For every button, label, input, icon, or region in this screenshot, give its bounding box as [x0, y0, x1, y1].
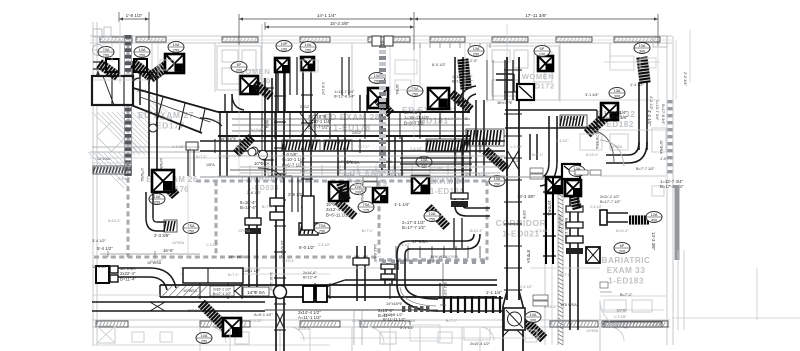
svg-text:1′-3 1/8″: 1′-3 1/8″	[320, 124, 333, 128]
riser x395	[394, 137, 396, 176]
svg-text:18″ΦSA: 18″ΦSA	[92, 265, 106, 269]
svg-text:B=7′-1″: B=7′-1″	[362, 229, 374, 233]
svg-text:WOMEN: WOMEN	[522, 72, 554, 81]
svg-text:8=10′-4″: 8=10′-4″	[250, 128, 263, 132]
riser x303	[302, 57, 304, 223]
margin line right	[756, 268, 758, 320]
ticked duct	[438, 297, 503, 299]
svg-text:14″ΦSA: 14″ΦSA	[352, 319, 365, 323]
svg-text:A=9′-1 1/2″: A=9′-1 1/2″	[254, 313, 273, 317]
band1 joints	[249, 111, 251, 139]
svg-text:12A: 12A	[651, 213, 658, 217]
svg-text:10A: 10A	[473, 47, 480, 51]
svg-text:B=7′-1″: B=7′-1″	[620, 293, 633, 297]
svg-text:B=17′-1 1/2″: B=17′-1 1/2″	[213, 292, 232, 296]
svg-text:14″ΦSA: 14″ΦSA	[235, 145, 248, 149]
tag 11	[149, 194, 165, 205]
trunk X brace	[507, 150, 519, 170]
wall top inner	[90, 42, 672, 44]
diffuser D9	[412, 176, 429, 193]
svg-text:2′-6 1/2″: 2′-6 1/2″	[118, 177, 131, 181]
svg-text:14″ΦSA: 14″ΦSA	[448, 117, 461, 121]
svg-text:26″Φ: 26″Φ	[483, 138, 487, 146]
bottom trunk	[160, 284, 497, 286]
partition extra a	[389, 43, 391, 95]
diffuser D2	[240, 76, 258, 94]
svg-text:250: 250	[494, 183, 500, 187]
fixture bl2	[160, 332, 172, 342]
ceil line a	[180, 267, 395, 269]
riser pair a low	[384, 260, 386, 284]
svg-text:14″ΦSA: 14″ΦSA	[172, 241, 185, 245]
svg-text:200: 200	[619, 250, 625, 254]
bottom partition	[461, 327, 463, 351]
svg-text:250: 250	[473, 53, 479, 57]
tag 10	[634, 43, 650, 54]
svg-text:36″x16″Φ: 36″x16″Φ	[497, 101, 512, 105]
svg-text:14″ΦSA: 14″ΦSA	[610, 145, 623, 149]
svg-text:2′-0 3/4″: 2′-0 3/4″	[683, 72, 687, 87]
riser x149	[148, 72, 150, 176]
svg-text:750: 750	[412, 93, 418, 97]
band1 wedge	[300, 113, 318, 137]
svg-text:8″ΦSA: 8″ΦSA	[526, 250, 531, 263]
fixture low mid2	[410, 325, 440, 341]
svg-text:CORRIDOR: CORRIDOR	[496, 218, 547, 228]
elbow x549	[540, 162, 549, 178]
mid dark line y162	[300, 161, 505, 163]
exam31 fixture b	[395, 80, 411, 90]
svg-text:2x10′-4 1/2″: 2x10′-4 1/2″	[470, 342, 491, 346]
svg-text:B=6′-11 1/2″: B=6′-11 1/2″	[326, 212, 350, 217]
svg-text:13′-3 3/8″: 13′-3 3/8″	[651, 232, 656, 251]
register strip 1	[282, 140, 320, 151]
fixture bm	[438, 332, 452, 343]
toilet room walls	[217, 46, 261, 90]
tag boxes 575	[575, 170, 588, 175]
svg-text:8=10′-4″: 8=10′-4″	[282, 259, 295, 263]
svg-text:14″ΦSA: 14″ΦSA	[342, 173, 355, 177]
tag 20	[646, 212, 662, 223]
supply trunk band2	[200, 140, 505, 142]
vertical trunk lower	[502, 306, 504, 351]
tag 12	[183, 223, 199, 234]
branch register	[164, 220, 177, 232]
bottom trunk wedges	[228, 285, 242, 297]
svg-text:8=10′-4″: 8=10′-4″	[544, 305, 557, 309]
dim 1-8half	[119, 18, 149, 20]
circle fitting 252	[248, 148, 256, 156]
svg-text:1/8″Φ: 1/8″Φ	[522, 210, 526, 219]
damper box women	[517, 84, 534, 100]
svg-text:16″ΦA: 16″ΦA	[395, 84, 399, 95]
svg-text:2′-0″: 2′-0″	[470, 59, 478, 63]
bottom fixture	[235, 332, 249, 344]
corridor wall line 2	[90, 157, 230, 159]
svg-text:250: 250	[173, 49, 179, 53]
fixture	[492, 50, 510, 62]
bariatric fixture b	[632, 300, 652, 312]
arch vert	[189, 148, 191, 176]
tag 3	[168, 42, 184, 53]
trunk A end flange	[132, 78, 134, 105]
lower wall line	[92, 344, 330, 346]
svg-text:8″ΦSA: 8″ΦSA	[188, 309, 200, 313]
flex connector D5 out	[378, 100, 390, 113]
bottom wall hatch	[360, 321, 410, 327]
svg-text:1′-4 1/2″: 1′-4 1/2″	[630, 83, 645, 87]
svg-text:B=12′-4″: B=12′-4″	[303, 275, 318, 279]
wall hatch band	[492, 37, 528, 42]
ext line	[118, 12, 120, 22]
svg-text:13A: 13A	[614, 89, 621, 93]
round duct bottom-left	[118, 267, 150, 269]
svg-text:4′-2 1/2″: 4′-2 1/2″	[649, 96, 653, 111]
riser x382	[381, 110, 383, 176]
rated wall hatch vertical	[557, 176, 559, 345]
tag 14	[350, 184, 366, 195]
dim 14-1quarter	[239, 18, 414, 20]
door arc 5	[480, 327, 494, 341]
svg-text:S: S	[465, 116, 468, 121]
wall left outer	[92, 22, 94, 345]
floor hatch left	[88, 152, 124, 188]
register strip 2	[324, 140, 352, 151]
flex connector w11	[429, 208, 446, 226]
fixture counter	[222, 68, 242, 84]
register strip 3	[426, 139, 470, 152]
section arrow	[97, 72, 99, 106]
door frame b	[111, 43, 113, 62]
flex connector w1	[100, 64, 117, 76]
svg-text:10A: 10A	[154, 195, 161, 199]
svg-text:BARIATRIC: BARIATRIC	[602, 256, 651, 265]
svg-text:8=10′-4″: 8=10′-4″	[586, 153, 599, 157]
svg-text:190: 190	[281, 48, 287, 52]
wall vertical mid-right 2	[551, 176, 553, 345]
ceiling duct light	[240, 166, 500, 168]
c-duct horizontal	[408, 240, 466, 242]
exam31 fixture a	[395, 60, 417, 74]
floor hatch upper-left	[92, 112, 135, 155]
svg-text:8=10′-4″: 8=10′-4″	[300, 169, 313, 173]
svg-text:6′-0 1/2″: 6′-0 1/2″	[299, 245, 315, 250]
svg-text:10A: 10A	[201, 334, 208, 338]
svg-text:8=10′-4″: 8=10′-4″	[470, 229, 483, 233]
bottom partition	[279, 327, 281, 351]
ext line	[413, 12, 415, 50]
flex connector w3	[151, 62, 172, 77]
hatch row low	[402, 306, 405, 312]
fixture wc	[242, 50, 256, 70]
diffuser D10	[546, 177, 562, 193]
equip box	[97, 326, 115, 343]
svg-text:750: 750	[429, 218, 435, 222]
vertical trunk transition	[503, 291, 507, 306]
tag 22	[489, 176, 505, 187]
ext line	[148, 12, 150, 40]
branch duct left-mid	[157, 221, 165, 223]
partition wall	[214, 43, 216, 92]
riser x357 fitting	[353, 258, 369, 265]
ceil line c	[92, 294, 160, 296]
diffuser D3	[275, 58, 289, 72]
right wall hatch ticks	[668, 100, 673, 103]
flange plates low	[381, 264, 395, 269]
tag 4	[276, 41, 292, 52]
bottom partition extra	[479, 327, 481, 351]
register box w1	[106, 59, 119, 72]
wall right outer	[666, 36, 668, 345]
supply trunk band1	[218, 111, 470, 113]
svg-text:10A: 10A	[530, 313, 537, 317]
bottom partition extra	[309, 327, 311, 351]
tag 15	[358, 202, 374, 213]
riser x265	[264, 78, 266, 176]
svg-text:B=7′-1″: B=7′-1″	[478, 173, 490, 177]
door frame a	[103, 43, 105, 62]
svg-text:1-ED021: 1-ED021	[502, 229, 539, 239]
vertical trunk flanges	[504, 69, 522, 71]
partition wall	[486, 43, 488, 102]
svg-text:1′-3 1/8″: 1′-3 1/8″	[172, 145, 185, 149]
arch line2	[92, 157, 132, 159]
svg-text:24/12: 24/12	[137, 89, 146, 93]
svg-text:B=12′-8 3/4″: B=12′-8 3/4″	[334, 94, 355, 98]
svg-text:300: 300	[614, 95, 620, 99]
elbow arc bottom-left	[150, 268, 176, 288]
band texture lines	[218, 155, 505, 157]
ladder column x380	[379, 44, 386, 48]
c-duct elbow left	[397, 241, 408, 255]
svg-text:190: 190	[539, 53, 545, 57]
elbow below w5b	[458, 86, 476, 106]
svg-text:1′-6 1/4″: 1′-6 1/4″	[321, 82, 325, 96]
partition wall	[419, 43, 421, 92]
exam32 faint line	[604, 61, 660, 63]
trunk duct A outline	[92, 76, 133, 105]
svg-text:300: 300	[639, 50, 645, 54]
bottom partition	[599, 327, 601, 351]
corridor boundary dashed vertical 4	[486, 181, 489, 260]
corridor boundary dashed top	[196, 180, 487, 183]
wall hatch band	[368, 37, 410, 42]
bottom wall hatch	[550, 321, 598, 327]
riser x530	[529, 134, 531, 160]
damper extra x570	[566, 222, 583, 228]
wall hatch band	[430, 37, 465, 42]
floor octagon	[97, 122, 127, 152]
tag w10	[196, 333, 212, 344]
svg-text:1=12′-7 1/4″: 1=12′-7 1/4″	[452, 75, 473, 79]
flex connector w5	[452, 94, 470, 109]
diffuser D16	[565, 180, 581, 196]
grid line a	[238, 45, 240, 176]
svg-text:B=7′-1″: B=7′-1″	[262, 205, 274, 209]
light v354	[353, 311, 355, 345]
svg-text:10A: 10A	[139, 48, 146, 52]
partition wall	[151, 43, 153, 80]
svg-text:B=7′-1″: B=7′-1″	[532, 153, 544, 157]
tag 2	[134, 47, 150, 58]
tag rects 363	[363, 176, 377, 181]
bottom wall hatch	[602, 321, 668, 327]
riser x357	[356, 246, 358, 301]
branch elbow	[146, 218, 157, 231]
diffuser D8	[601, 103, 618, 120]
riser end elbow	[274, 286, 287, 299]
svg-text:2′-6 1/2″: 2′-6 1/2″	[247, 191, 262, 195]
svg-text:B=7′-7 1/2″: B=7′-7 1/2″	[636, 167, 655, 171]
svg-text:ED EXAM 28: ED EXAM 28	[324, 112, 380, 122]
tag room1	[231, 62, 247, 73]
upper wide duct	[183, 268, 243, 283]
svg-text:1=10′-1 1/4″: 1=10′-1 1/4″	[269, 272, 273, 292]
arc detail mid	[340, 176, 360, 196]
bottom-right marks	[600, 282, 608, 288]
boxed tag bottom	[210, 286, 234, 296]
band1 inner lines	[232, 118, 470, 120]
svg-text:1=12′-7 3/4″: 1=12′-7 3/4″	[334, 90, 355, 94]
dim 17-11	[414, 18, 658, 20]
elbow x459 to corridor	[455, 206, 467, 216]
svg-text:17′-11 3/8″: 17′-11 3/8″	[525, 13, 547, 18]
svg-text:8=10′-4″: 8=10′-4″	[410, 109, 423, 113]
svg-text:24/12: 24/12	[300, 105, 309, 109]
svg-text:24/12: 24/12	[352, 131, 361, 135]
svg-text:1′-3 1/8″: 1′-3 1/8″	[536, 229, 549, 233]
margin line	[689, 30, 691, 82]
svg-text:B=17′-8 3/4″: B=17′-8 3/4″	[661, 104, 665, 125]
diffuser D11	[329, 182, 348, 201]
diffuser D6	[428, 88, 449, 109]
door arc 3	[610, 327, 624, 341]
bottom fixture 2	[380, 332, 396, 344]
riser x546 flanges	[543, 191, 556, 193]
trunk fittings	[303, 286, 314, 302]
riser x133	[132, 61, 134, 105]
svg-text:B=7′-1″: B=7′-1″	[358, 145, 370, 149]
supply trunk band1 right	[505, 109, 597, 111]
margin faint v	[675, 40, 677, 100]
svg-text:36″x18″Φ: 36″x18″Φ	[220, 137, 236, 141]
flex connector w15b	[341, 184, 346, 199]
diffuser D14	[223, 318, 241, 336]
door arc 1	[210, 327, 226, 343]
svg-text:1′-1 1/4″: 1′-1 1/4″	[486, 290, 502, 295]
svg-text:CORRIDOR: CORRIDOR	[241, 174, 284, 183]
tag D6 left	[407, 86, 423, 97]
bottom wall hatch	[200, 321, 250, 327]
ext line	[238, 14, 240, 45]
wall left inner	[96, 22, 98, 345]
svg-text:8=10′-4″: 8=10′-4″	[108, 219, 121, 223]
riser x342 light	[341, 57, 343, 95]
tall duct section x302	[302, 196, 314, 230]
svg-text:6′-0 1/2″: 6′-0 1/2″	[432, 63, 447, 67]
arc right low	[592, 130, 614, 164]
svg-text:7SA: 7SA	[187, 224, 195, 228]
ceil line b	[180, 273, 330, 275]
svg-text:B=11′-4″: B=11′-4″	[120, 276, 136, 281]
svg-text:1′-0″: 1′-0″	[660, 157, 668, 161]
arch line3	[92, 162, 132, 164]
svg-text:B=17′-7 1/2″: B=17′-7 1/2″	[600, 200, 621, 204]
room wall right	[600, 175, 666, 177]
svg-text:2′-6 1/2″: 2′-6 1/2″	[590, 205, 603, 209]
east wall filled segment	[675, 185, 680, 260]
register box w2	[134, 59, 147, 72]
trunk hatch texture	[162, 286, 172, 297]
band2 ticks	[214, 139, 216, 153]
svg-text:7′-2″: 7′-2″	[428, 260, 436, 264]
fitting box bottom-left	[96, 266, 109, 283]
svg-text:8=10′-4″: 8=10′-4″	[616, 229, 629, 233]
bottom trunk label	[243, 287, 269, 296]
svg-text:B=17′-1 1/2″: B=17′-1 1/2″	[452, 79, 473, 83]
svg-text:5′-1 1/8″: 5′-1 1/8″	[400, 326, 415, 330]
wall line x158	[157, 43, 159, 76]
dim vert low	[442, 263, 444, 305]
wall right inner	[672, 36, 674, 345]
svg-text:EXAM 33: EXAM 33	[607, 266, 646, 275]
room divider right	[545, 99, 660, 101]
diffuser D1	[165, 54, 184, 73]
fixture exam32 a	[580, 134, 602, 150]
exam32 fixture top a	[610, 56, 634, 70]
svg-text:14″x18″Φ: 14″x18″Φ	[386, 302, 402, 306]
flex connector w8	[642, 58, 645, 82]
svg-text:6P: 6P	[540, 47, 545, 51]
svg-text:10A: 10A	[429, 212, 436, 216]
damper square trunk	[504, 308, 525, 330]
svg-text:2′-6 1/2″: 2′-6 1/2″	[250, 319, 263, 323]
svg-text:14% WSA: 14% WSA	[228, 255, 246, 259]
partition wall	[351, 43, 353, 112]
svg-text:250: 250	[154, 201, 160, 205]
wall dark tick b	[104, 27, 111, 37]
svg-text:13′-3 3/8″: 13′-3 3/8″	[517, 194, 536, 199]
svg-text:B=7′-1″: B=7′-1″	[228, 273, 240, 277]
svg-text:4′-2 1/2″: 4′-2 1/2″	[647, 110, 652, 126]
partition wall	[544, 43, 546, 80]
svg-text:8″ΦSA: 8″ΦSA	[360, 190, 364, 202]
riser x249 lower	[248, 176, 250, 291]
wall hatch band	[300, 37, 330, 42]
riser x546 dark	[545, 176, 547, 264]
ext line long	[119, 22, 121, 84]
svg-text:14′5 WSA: 14′5 WSA	[560, 303, 577, 307]
fixture bm2	[525, 330, 537, 342]
svg-text:B=10′-4″: B=10′-4″	[240, 205, 257, 210]
tag 19	[569, 166, 585, 177]
light v362	[361, 311, 363, 345]
duct right-mid	[607, 212, 628, 214]
svg-text:14″WA: 14″WA	[159, 158, 163, 170]
c-duct elbow right	[466, 234, 474, 241]
fixture	[534, 52, 552, 82]
wall vertical mid-right	[544, 176, 546, 345]
diffuser D4	[301, 57, 314, 70]
tag 13	[314, 223, 330, 234]
corridor wall line	[90, 151, 200, 153]
vertical trunk main	[506, 57, 508, 300]
svg-text:3′-4 1/2″: 3′-4 1/2″	[92, 239, 107, 243]
duct L women	[496, 73, 514, 75]
svg-text:1/8″A: 1/8″A	[206, 163, 215, 167]
mid medium line	[230, 169, 400, 171]
riser x292 small	[291, 176, 293, 212]
